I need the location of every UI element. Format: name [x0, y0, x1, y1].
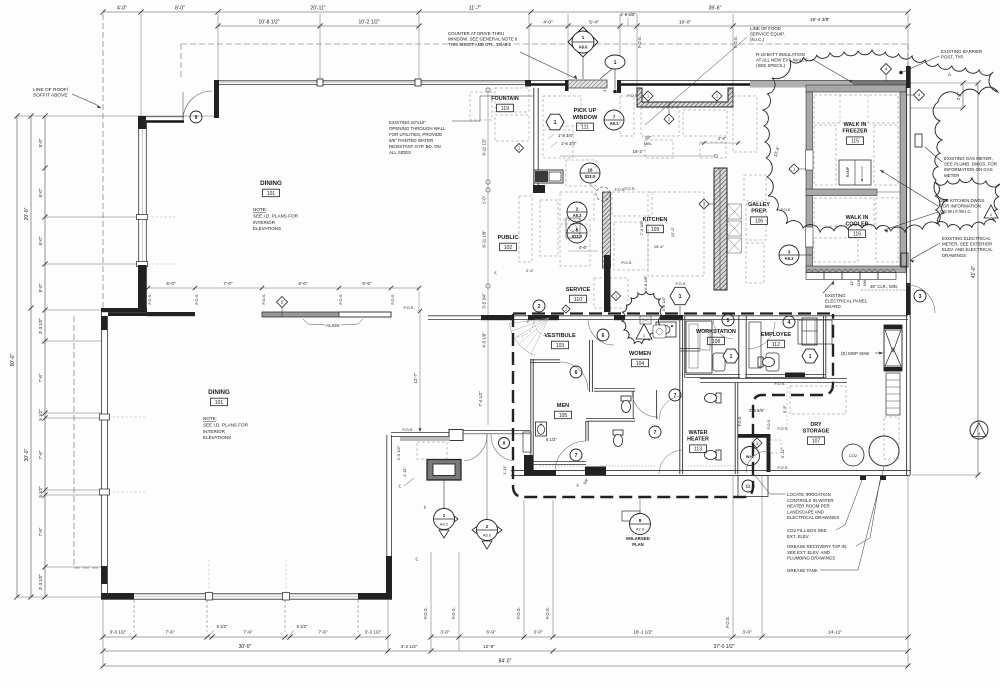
svg-text:112: 112: [772, 342, 780, 348]
svg-text:18'-4 3/8": 18'-4 3/8": [810, 17, 831, 23]
svg-text:3'-0": 3'-0": [440, 630, 450, 635]
svg-text:3'-3 1/2": 3'-3 1/2": [365, 630, 382, 635]
interior dim string x=488: [487, 88, 489, 425]
floor sink + hub drain: [640, 316, 651, 324]
svg-text:115: 115: [851, 139, 859, 145]
gas meter box: [915, 134, 922, 147]
east dining wall: [386, 435, 388, 598]
svg-text:PICK UP: PICK UP: [574, 108, 597, 114]
svg-text:5 1/2": 5 1/2": [38, 409, 43, 421]
employee fixtures: [749, 322, 761, 368]
north wall window mullions: [317, 79, 323, 86]
svg-text:2: 2: [576, 207, 579, 212]
galley prep counter hatched: [714, 168, 727, 290]
svg-text:A7.0: A7.0: [636, 527, 645, 532]
svg-text:101: 101: [267, 191, 276, 197]
svg-text:4'-6": 4'-6": [579, 245, 588, 250]
svg-text:1: 1: [730, 354, 733, 360]
svg-text:20'-11": 20'-11": [310, 6, 325, 12]
svg-text:3'-3 1/2": 3'-3 1/2": [661, 296, 666, 311]
svg-text:(N.I.C.): (N.I.C.): [750, 37, 765, 42]
svg-text:7: 7: [575, 453, 578, 459]
svg-text:3'-3 1/2": 3'-3 1/2": [38, 318, 43, 335]
svg-text:DRAWINGS: DRAWINGS: [942, 253, 966, 258]
svg-text:OPENING THROUGH WALL: OPENING THROUGH WALL: [389, 126, 446, 131]
prep sinks etc small: [566, 218, 580, 238]
svg-text:F.O.S.: F.O.S.: [777, 465, 788, 470]
svg-text:SERVICE: SERVICE: [566, 287, 591, 293]
CO2 + grease tank: [842, 444, 864, 466]
svg-text:107: 107: [812, 439, 821, 445]
svg-text:7'-4 1/2": 7'-4 1/2": [478, 391, 483, 407]
svg-text:109: 109: [651, 227, 660, 233]
double door arcs: [464, 434, 487, 461]
svg-text:CONTROLS IN WATER: CONTROLS IN WATER: [787, 498, 834, 503]
svg-text:7: 7: [674, 393, 677, 399]
marker 2/A6.0: [472, 519, 502, 541]
svg-text:1'-9 5/8": 1'-9 5/8": [620, 12, 637, 17]
svg-text:20'-0": 20'-0": [24, 207, 30, 220]
svg-text:30'-0": 30'-0": [24, 448, 30, 461]
svg-text:30'-0": 30'-0": [239, 644, 252, 650]
svg-text:HEATER: HEATER: [687, 437, 709, 443]
svg-text:10'-2 1/2": 10'-2 1/2": [358, 20, 379, 26]
svg-text:DINING: DINING: [260, 180, 282, 187]
svg-text:1'-0": 1'-0": [482, 195, 487, 204]
svg-text:4'-0": 4'-0": [543, 20, 553, 26]
svg-text:THIS SHEET AND DTL. 13/A9.1: THIS SHEET AND DTL. 13/A9.1: [448, 42, 512, 47]
svg-text:EXISTING: EXISTING: [825, 293, 846, 298]
svg-text:R-19 BATT INSULATION: R-19 BATT INSULATION: [756, 52, 805, 57]
svg-text:F.O.S.: F.O.S.: [614, 187, 625, 192]
svg-text:2: 2: [486, 524, 489, 529]
svg-text:ELEVATIONS: ELEVATIONS: [203, 435, 231, 440]
svg-text:111: 111: [581, 125, 589, 131]
svg-text:F.O.S.: F.O.S.: [545, 607, 550, 619]
drive-thru window dot leader: [605, 55, 625, 69]
svg-text:9'-11 1/2": 9'-11 1/2": [482, 138, 487, 156]
svg-text:F.O.S.: F.O.S.: [402, 427, 413, 432]
svg-text:CLR: CLR: [857, 279, 861, 286]
svg-text:110: 110: [574, 297, 582, 303]
svg-text:PLUMBING DRAWINGS: PLUMBING DRAWINGS: [787, 556, 835, 561]
svg-text:7'-6": 7'-6": [165, 630, 175, 635]
dining NE alcove + chimney: [391, 432, 450, 434]
svg-text:3'-0": 3'-0": [742, 630, 752, 635]
window head dashes into rooms: [147, 216, 178, 218]
workstation/employee walls: [738, 316, 740, 378]
kitchen interior dims: [560, 155, 716, 157]
vestibule inner walls: [530, 359, 532, 474]
east exterior wall: [906, 66, 908, 475]
pick-up counter: [637, 88, 733, 107]
svg-text:F.O.S.: F.O.S.: [624, 186, 635, 191]
svg-text:3: 3: [788, 250, 791, 255]
south dining wall: [101, 593, 392, 595]
svg-text:AT ALL NEW EXT. WALLS: AT ALL NEW EXT. WALLS: [756, 58, 808, 63]
svg-text:EMPLOYEE: EMPLOYEE: [761, 332, 791, 338]
corridor stall walls right: [656, 390, 658, 419]
svg-text:1'-11": 1'-11": [402, 466, 407, 476]
top dim row A: [103, 11, 908, 13]
svg-text:NOTE:: NOTE:: [203, 416, 217, 421]
svg-text:3'-3 1/2": 3'-3 1/2": [110, 630, 127, 635]
svg-text:A9.1: A9.1: [610, 121, 620, 126]
bottom dim row 3: [103, 665, 908, 667]
west window wall upper: [138, 121, 140, 308]
freezer walls grey: [806, 85, 906, 92]
svg-text:5'-0": 5'-0": [166, 281, 176, 286]
women stall walls: [594, 388, 635, 390]
svg-text:F.O.S.: F.O.S.: [390, 293, 395, 304]
svg-text:4'-2 1/2": 4'-2 1/2": [401, 644, 418, 649]
cook line grille symbols: [728, 204, 742, 219]
svg-text:RESISTANT GYP. BD. ON: RESISTANT GYP. BD. ON: [389, 144, 441, 149]
svg-text:113: 113: [694, 447, 702, 453]
svg-text:ELEV. AND ELECTRICAL: ELEV. AND ELECTRICAL: [942, 247, 993, 252]
svg-text:NOTE:: NOTE:: [253, 207, 267, 212]
grease bump: [738, 476, 768, 497]
svg-text:F.O.S.: F.O.S.: [621, 260, 632, 265]
svg-text:F.O.S.: F.O.S.: [675, 281, 686, 286]
barrier post diamonds: [881, 64, 892, 75]
marker 7/A9.1: [604, 110, 624, 130]
svg-text:COOLER: COOLER: [845, 222, 868, 228]
svg-text:12": 12": [850, 280, 854, 286]
svg-text:4'-5 1/8": 4'-5 1/8": [482, 332, 487, 348]
svg-text:18'-1 1/2": 18'-1 1/2": [633, 630, 653, 635]
svg-text:7'-6": 7'-6": [38, 373, 43, 382]
svg-text:PLAN: PLAN: [632, 542, 643, 547]
dry storage north wall: [700, 378, 847, 380]
svg-text:F.O.S.: F.O.S.: [725, 616, 730, 628]
svg-text:5'-5": 5'-5": [782, 404, 787, 413]
svg-text:16: 16: [587, 168, 593, 173]
fountain equip dashed: [470, 92, 492, 120]
svg-text:FOUNTAIN: FOUNTAIN: [491, 96, 519, 102]
svg-text:1: 1: [809, 354, 812, 360]
svg-text:12'-0": 12'-0": [670, 226, 675, 237]
freezer door gap: [805, 150, 814, 170]
hexagon window tag: [670, 287, 690, 304]
svg-text:ALL SIDES: ALL SIDES: [389, 150, 411, 155]
svg-text:104: 104: [636, 361, 645, 367]
svg-text:1'-11": 1'-11": [502, 464, 507, 474]
marker 1/A6.0 drive-thru: [568, 27, 598, 57]
svg-text:7: 7: [654, 430, 657, 436]
svg-text:SEE I.D. PLANS FOR: SEE I.D. PLANS FOR: [253, 213, 299, 218]
svg-text:1'-8 3/4": 1'-8 3/4": [558, 133, 574, 138]
shelf row below cooler (scalloped): [806, 273, 824, 280]
svg-text:GREASE TANK: GREASE TANK: [787, 568, 818, 573]
north wall solid segment at fountain: [531, 80, 568, 82]
svg-text:F.O.S.: F.O.S.: [423, 607, 428, 619]
revision triangle in cloud: [636, 324, 652, 339]
svg-text:(E) MOP SINK: (E) MOP SINK: [841, 351, 870, 356]
svg-text:ELECTRICAL PANEL: ELECTRICAL PANEL: [825, 299, 868, 304]
svg-text:5'-4": 5'-4": [589, 20, 599, 26]
svg-text:STORAGE: STORAGE: [803, 429, 830, 435]
svg-text:DRY: DRY: [810, 422, 822, 428]
main mid wall y=316: [428, 315, 908, 317]
svg-text:119: 119: [501, 106, 509, 112]
svg-text:50'-0": 50'-0": [10, 353, 16, 366]
svg-text:FOR UTILITIES, PROVIDE: FOR UTILITIES, PROVIDE: [389, 132, 442, 137]
svg-text:41'-0": 41'-0": [971, 265, 977, 278]
svg-text:WINDOW: WINDOW: [573, 115, 598, 121]
svg-text:12'-9": 12'-9": [483, 644, 495, 649]
svg-text:16'-2": 16'-2": [633, 149, 644, 154]
svg-text:F.O.S.: F.O.S.: [338, 293, 343, 304]
svg-text:CO2: CO2: [849, 453, 858, 458]
svg-text:11'-7": 11'-7": [469, 6, 482, 12]
svg-text:F.O.S.: F.O.S.: [194, 293, 199, 304]
svg-text:A9.3: A9.3: [573, 213, 583, 218]
svg-text:INTERIOR: INTERIOR: [253, 220, 276, 225]
service counter bar: [603, 192, 611, 268]
top dim extension lines: [140, 14, 142, 118]
svg-text:6: 6: [602, 333, 605, 339]
kitchen center equip: [612, 192, 652, 216]
svg-text:F.O.S.: F.O.S.: [147, 293, 152, 304]
svg-text:EXISTING GAS METER,: EXISTING GAS METER,: [944, 156, 993, 161]
svg-text:7'-6": 7'-6": [38, 450, 43, 459]
svg-text:1: 1: [553, 120, 556, 126]
svg-text:39'-6": 39'-6": [709, 6, 722, 12]
svg-text:EXISTING ELECTRICAL: EXISTING ELECTRICAL: [942, 236, 991, 241]
svg-text:WOMEN: WOMEN: [629, 351, 651, 357]
revision triangle right: [984, 205, 998, 218]
interior dim 12-7: [419, 312, 421, 430]
svg-text:GALLEY: GALLEY: [748, 202, 770, 208]
svg-text:COUNTER AT DRIVE-THRU: COUNTER AT DRIVE-THRU: [448, 31, 504, 36]
svg-text:LINE OF ROOF/: LINE OF ROOF/: [33, 87, 69, 93]
svg-text:1: 1: [614, 60, 617, 66]
interior dim row y=288 (dining): [148, 287, 419, 289]
svg-text:FREEZER: FREEZER: [842, 129, 867, 135]
svg-text:ELEVATIONS: ELEVATIONS: [253, 226, 281, 231]
svg-text:DINING: DINING: [208, 389, 230, 396]
left dim extensions: [45, 216, 138, 218]
svg-text:ELECTRICAL DRAWINGS: ELECTRICAL DRAWINGS: [787, 515, 839, 520]
svg-text:POST, TYP.: POST, TYP.: [941, 55, 964, 60]
svg-text:A6.0: A6.0: [579, 45, 589, 50]
svg-text:SEE I.D. PLANS FOR: SEE I.D. PLANS FOR: [203, 422, 249, 427]
svg-text:(SEE SPECS.): (SEE SPECS.): [756, 63, 786, 68]
workstation fixtures: [686, 321, 712, 373]
svg-text:8: 8: [503, 441, 506, 446]
cooler door gap: [805, 227, 814, 247]
svg-text:3'-0": 3'-0": [533, 630, 543, 635]
tile edge dots: [600, 465, 655, 467]
svg-text:8: 8: [576, 228, 579, 233]
svg-text:1: 1: [678, 294, 681, 300]
svg-text:FOR INFORMATION: FOR INFORMATION: [940, 204, 981, 209]
svg-text:7: 7: [613, 115, 616, 120]
svg-text:PREP.: PREP.: [751, 209, 767, 215]
svg-text:11: 11: [746, 484, 751, 489]
chimney element: [427, 460, 461, 481]
svg-text:2'-4": 2'-4": [526, 268, 535, 273]
svg-text:F.O.S.: F.O.S.: [738, 416, 742, 427]
bottom dim row 1: [103, 636, 388, 638]
svg-text:5 1/2": 5 1/2": [217, 624, 228, 629]
svg-text:48" CLR., MIN.: 48" CLR., MIN.: [870, 284, 898, 289]
svg-text:ON W.I.F./W.I.C.: ON W.I.F./W.I.C.: [940, 209, 972, 214]
women right wall: [679, 318, 681, 474]
svg-text:ENLARGED: ENLARGED: [626, 536, 650, 541]
banquette half wall + ALIGN: [262, 312, 339, 317]
service swing fan: [509, 318, 549, 324]
men entry door: [555, 441, 586, 472]
svg-text:2'-4": 2'-4": [718, 136, 727, 141]
svg-text:ALIGN: ALIGN: [326, 323, 339, 328]
marker 3/A9.3 cooler: [779, 245, 799, 265]
svg-text:9'-11 1/8": 9'-11 1/8": [482, 230, 487, 248]
svg-text:RAMP: RAMP: [846, 166, 850, 177]
svg-text:7'-6": 7'-6": [318, 630, 328, 635]
svg-text:SEE KITCHEN DWGS.: SEE KITCHEN DWGS.: [940, 198, 985, 203]
svg-text:2'-5 1/2": 2'-5 1/2": [396, 445, 401, 460]
small cloud vestibule: [622, 291, 663, 344]
svg-text:8'-0": 8'-0": [298, 281, 308, 286]
NW wall step: [214, 80, 219, 118]
marker 1/A9.2: [444, 508, 458, 530]
svg-text:SOFFIT ABOVE: SOFFIT ABOVE: [33, 93, 68, 99]
svg-text:WORKSTATION: WORKSTATION: [696, 329, 736, 335]
top dim row B left: [218, 25, 419, 27]
svg-text:GREASE RECOVERY TAP IN,: GREASE RECOVERY TAP IN,: [787, 544, 847, 549]
bottom extensions: [133, 600, 135, 632]
wall x=736: [734, 383, 736, 474]
marker 16/ID3.0: [580, 163, 600, 183]
svg-text:5'-5": 5'-5": [362, 281, 372, 286]
svg-text:PUBLIC: PUBLIC: [498, 235, 519, 241]
svg-text:CO2 FILL BOX SEE: CO2 FILL BOX SEE: [787, 528, 826, 533]
svg-text:5/8" PAINTED WATER: 5/8" PAINTED WATER: [389, 138, 433, 143]
svg-text:108: 108: [712, 339, 721, 345]
svg-text:WALK IN: WALK IN: [844, 122, 867, 128]
kitchen equip dashed top rows: [641, 108, 679, 136]
svg-text:F.O.S.: F.O.S.: [733, 36, 738, 48]
restroom fixtures: [621, 396, 631, 413]
cloud around note right: [935, 178, 1000, 230]
svg-text:WALK IN: WALK IN: [846, 215, 869, 221]
svg-text:EXISTING BARRIER: EXISTING BARRIER: [941, 49, 982, 54]
svg-text:1: 1: [582, 35, 585, 41]
opening arcs/vestibule dashed doors: [517, 320, 534, 337]
svg-text:A6.0: A6.0: [483, 533, 492, 538]
svg-text:EXISTING 10"x10": EXISTING 10"x10": [389, 120, 426, 125]
svg-text:5'-0": 5'-0": [38, 138, 43, 147]
svg-text:103: 103: [556, 343, 565, 349]
svg-text:6 1/2": 6 1/2": [546, 437, 557, 442]
svg-text:VESTIBULE: VESTIBULE: [544, 333, 576, 339]
svg-text:101: 101: [215, 400, 224, 406]
svg-text:F.O.S.: F.O.S.: [451, 607, 456, 619]
svg-text:84'-0": 84'-0": [499, 659, 512, 665]
women lavs: [656, 322, 676, 337]
svg-text:6: 6: [575, 370, 578, 376]
svg-text:F.O.S.: F.O.S.: [516, 607, 521, 619]
svg-text:METER: METER: [944, 173, 959, 178]
svg-text:10'-8 1/2": 10'-8 1/2": [258, 20, 279, 26]
svg-text:1: 1: [443, 513, 446, 518]
svg-text:MEN: MEN: [557, 403, 569, 409]
svg-text:116: 116: [853, 232, 861, 238]
svg-text:F.O.S.: F.O.S.: [261, 293, 266, 304]
svg-text:7'-6": 7'-6": [243, 630, 253, 635]
svg-text:F.O.S.: F.O.S.: [777, 426, 788, 431]
svg-text:SEE EXT. ELEV. AND: SEE EXT. ELEV. AND: [787, 550, 830, 555]
employee door arc: [748, 322, 775, 349]
water heater closet: [738, 434, 770, 438]
svg-text:8'-0": 8'-0": [175, 6, 185, 12]
left dim col 1 (50ft): [16, 116, 18, 597]
svg-text:WINDOW. SEE GENERAL NOTE 8: WINDOW. SEE GENERAL NOTE 8: [448, 37, 518, 42]
ramp: [839, 160, 871, 185]
fountain counter: [533, 88, 535, 193]
workstation door arc: [713, 319, 733, 339]
svg-text:HEATER ROOM PER: HEATER ROOM PER: [787, 504, 830, 509]
bottom dim row 2: [103, 650, 908, 652]
svg-text:F.O.S.: F.O.S.: [774, 381, 785, 386]
cooler racks: [814, 198, 874, 226]
svg-text:5'-8 1/8": 5'-8 1/8": [643, 275, 648, 290]
west step wall: [101, 308, 147, 312]
svg-text:3'-4 5/8": 3'-4 5/8": [749, 408, 765, 413]
top dim row B right: [529, 25, 908, 27]
svg-text:5 1/2": 5 1/2": [38, 486, 43, 498]
right dim col: [977, 83, 979, 475]
svg-text:WATER: WATER: [688, 430, 707, 436]
water heater circle: [741, 447, 760, 466]
west window wall lower: [101, 312, 103, 598]
left dim col 2: [30, 116, 32, 597]
svg-text:10'-0": 10'-0": [679, 20, 692, 26]
north exterior wall: storefront left portion: [218, 80, 531, 82]
svg-text:2: 2: [538, 304, 541, 310]
svg-text:14'-11": 14'-11": [828, 630, 842, 635]
south wall of restroom wing: [511, 470, 910, 472]
svg-text:F.O.S.: F.O.S.: [403, 305, 414, 310]
freezer racks dashed: [814, 95, 898, 123]
markers 2/A9.3 8/ID3.0: [567, 202, 587, 222]
svg-text:106: 106: [755, 219, 764, 225]
svg-text:3: 3: [919, 294, 922, 300]
svg-text:SEE PLUMB. DWGS, FOR: SEE PLUMB. DWGS, FOR: [944, 162, 997, 167]
svg-text:A9.3: A9.3: [785, 256, 795, 261]
svg-text:105: 105: [559, 413, 568, 419]
women entry arc: [588, 319, 614, 345]
svg-text:MIN: MIN: [863, 279, 867, 286]
svg-text:LOCATE IRRIGATION: LOCATE IRRIGATION: [787, 492, 831, 497]
svg-text:KITCHEN: KITCHEN: [643, 217, 668, 223]
revision delta circle right: [970, 421, 988, 439]
svg-text:15'-4": 15'-4": [654, 244, 665, 249]
left dim col 3: [44, 116, 46, 597]
mop sink: [884, 325, 902, 371]
dashed circle: [596, 187, 610, 201]
svg-text:A9.2: A9.2: [440, 522, 449, 527]
small diamonds: [515, 144, 524, 153]
wall stub east of step: [147, 312, 195, 316]
svg-text:4: 4: [788, 320, 791, 326]
svg-text:ID3.0: ID3.0: [585, 174, 596, 179]
svg-text:3'-5 3/4": 3'-5 3/4": [482, 293, 487, 309]
svg-text:9: 9: [195, 115, 198, 121]
svg-text:8: 8: [639, 518, 642, 523]
